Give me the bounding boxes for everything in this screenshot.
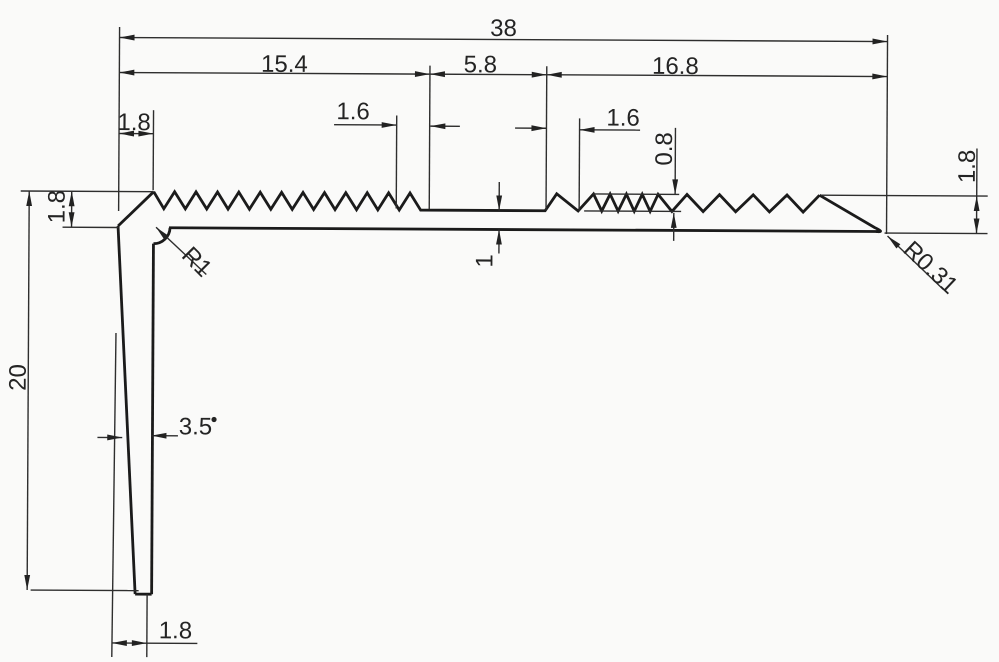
label 20 rotated — [5, 364, 32, 391]
extension line right x=886 — [887, 35, 888, 234]
extension line valleys level — [584, 210, 681, 213]
label 0.8 rotated — [651, 132, 678, 166]
label 3.5 deg — [179, 413, 217, 440]
svg-text:1.8: 1.8 — [44, 190, 71, 224]
label 1.8 right rotated — [954, 150, 981, 184]
dimension line 1.8 left — [69, 191, 75, 227]
extension line x=113.5 long — [112, 333, 116, 657]
extension line top surface plane — [21, 190, 154, 193]
svg-text:38: 38 — [490, 15, 517, 42]
extension line peaks level — [593, 193, 679, 195]
extension baseline y=592.5 — [31, 589, 139, 592]
svg-text:15.4: 15.4 — [261, 51, 308, 78]
leader arrow left to x=429 — [430, 123, 460, 129]
label 16.8 — [652, 53, 699, 80]
svg-text:16.8: 16.8 — [652, 53, 699, 80]
profile serrated top surface — [154, 192, 820, 212]
dimension line 20 — [24, 191, 32, 590]
svg-text:1: 1 — [471, 254, 498, 268]
dimension arrow 0.8 lower — [671, 213, 677, 241]
dimension arrow 1 lower — [496, 229, 502, 253]
svg-text:1.8: 1.8 — [159, 617, 193, 644]
svg-text:1.8: 1.8 — [117, 109, 151, 136]
svg-text:3.5: 3.5 — [179, 413, 213, 440]
label R0.31 rotated — [898, 236, 964, 300]
dimension line 38 — [120, 35, 888, 45]
profile right end chamfer with R0.31 nose — [819, 195, 880, 232]
extension line x=545.4 — [545, 66, 548, 210]
leader arrow right to x=545.4 — [515, 125, 546, 131]
svg-text:1.8: 1.8 — [954, 150, 981, 184]
svg-text:20: 20 — [5, 364, 32, 391]
profile tread bottom line — [169, 228, 877, 232]
dimension line 1.8 top-left — [119, 131, 153, 137]
extension line x=148.5 — [146, 594, 148, 657]
svg-text:0.8: 0.8 — [651, 132, 678, 166]
profile leg bottom edge — [135, 593, 151, 596]
extension line x=428.6 — [428, 66, 431, 209]
label 1.8 top-left — [117, 109, 151, 136]
profile inner leg edge — [152, 244, 154, 594]
dimension line 1.8 bottom — [112, 640, 198, 646]
profile top-left chamfer — [118, 192, 154, 227]
leader R1 — [156, 227, 207, 274]
dimension line 1.8 right — [974, 148, 980, 233]
label 15.4 — [261, 51, 308, 78]
label 5.8 — [464, 51, 498, 78]
label 1.8 bottom — [159, 617, 193, 644]
extension line peaks to right — [821, 194, 988, 197]
svg-text:1.6: 1.6 — [606, 105, 640, 132]
label 38 — [490, 15, 517, 42]
label 1.6 right — [606, 105, 640, 132]
extension line x=395.6 — [395, 115, 397, 208]
leader arrow left to x=578.5 — [580, 127, 641, 133]
extension line left x=118 — [118, 27, 121, 211]
label 1.8 left rotated — [44, 190, 71, 224]
label R1 rotated — [176, 242, 217, 283]
extension line x=152.4 — [152, 110, 154, 190]
dimension line 15.4-5.8-16.8 — [119, 70, 887, 80]
dimension line 0.8 upper — [672, 128, 678, 195]
label 1.6 left — [336, 98, 370, 125]
extension line x=578.5 — [578, 118, 580, 210]
leader R0.31 — [887, 236, 943, 289]
profile inner fillet R1 — [153, 228, 170, 244]
svg-text:5.8: 5.8 — [464, 51, 498, 78]
label 1 rotated — [471, 254, 498, 268]
extension line tip level right — [885, 232, 988, 235]
dimension arrow 1 upper — [496, 182, 502, 211]
profile outer tapered left edge — [116, 226, 137, 594]
angle arrow left to inner edge — [151, 433, 178, 439]
svg-text:1.6: 1.6 — [336, 98, 370, 125]
leader arrow right to x=395.6 — [334, 122, 397, 128]
angle arrow right to taper — [97, 434, 122, 440]
extension line tread bottom plane — [63, 226, 119, 228]
